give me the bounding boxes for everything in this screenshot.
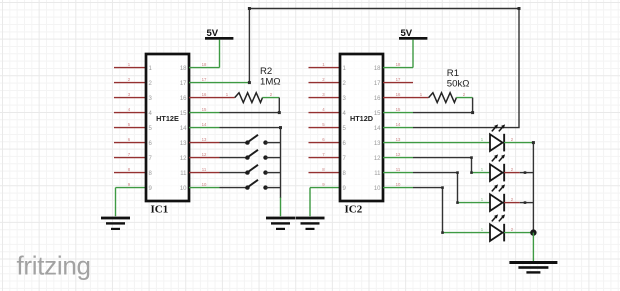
svg-text:15: 15 — [180, 111, 187, 117]
svg-text:14: 14 — [180, 126, 187, 132]
svg-text:18: 18 — [374, 66, 381, 72]
svg-text:11: 11 — [202, 167, 207, 172]
svg-text:13: 13 — [396, 137, 401, 142]
LED D2 cathode wire: red leg + black wire to bus — [504, 167, 533, 174]
svg-text:11: 11 — [180, 171, 187, 177]
wire IC2 pin9 to ground + ground symbol GND3 — [296, 188, 325, 230]
svg-text:16: 16 — [180, 96, 187, 102]
IC1 pin 9 leg (VSS, connected, green) — [116, 182, 147, 187]
svg-text:fritzing: fritzing — [17, 251, 91, 281]
IC1 pin 10 leg + wire to switch S4 — [189, 182, 248, 187]
ground symbol GND4 bars — [509, 261, 557, 274]
IC2 pin numbers (1-9 left, 18-10 right) — [343, 66, 382, 192]
IC2 pin 15 leg (OSC2) green + black wire to R1 output — [383, 107, 473, 112]
svg-text:13: 13 — [374, 141, 381, 147]
svg-text:18: 18 — [396, 62, 401, 67]
IC1 pin 14 leg (TE) green + black wire to ground bus — [189, 122, 281, 127]
svg-text:IC1: IC1 — [151, 203, 169, 215]
LED D4 cathode wire (green) to bus junction — [504, 227, 533, 232]
LED D3 — [490, 184, 505, 211]
svg-text:R1: R1 — [447, 68, 459, 79]
svg-text:12: 12 — [180, 156, 187, 162]
IC1 reference designator label — [151, 203, 169, 215]
IC2 pin 11 (D10) leg + stepped wire down to LED3 anode — [383, 167, 490, 204]
svg-text:17: 17 — [374, 81, 381, 87]
svg-text:10: 10 — [374, 186, 381, 192]
power symbol 5V (right) + wire to IC2 pin18 — [399, 28, 427, 68]
IC1 pin 15 leg (OSC2) green + black wire to R2 output — [189, 107, 279, 112]
LED D1 cathode wire to LED bus (green) — [504, 137, 533, 142]
svg-text:17: 17 — [180, 81, 187, 87]
bendpoint junction at IC1 pin17 — [248, 81, 251, 84]
bendpoint at top of switch ground bus — [279, 126, 282, 129]
bendpoint top of LED bus — [532, 141, 535, 144]
IC1 part name label HT12E — [156, 114, 179, 123]
svg-text:12: 12 — [374, 156, 381, 162]
switch S3 (SPST) on pin 11 — [245, 165, 280, 175]
IC2 pin 9 leg (VSS, green) — [310, 182, 340, 187]
IC2 pin 14 leg (DIN) green, black wire continues to data bus — [383, 122, 413, 127]
IC2 pin 17 leg (VT, unconnected red) — [383, 77, 413, 82]
svg-text:HT12D: HT12D — [350, 114, 373, 123]
svg-text:IC2: IC2 — [345, 203, 363, 215]
svg-text:16: 16 — [374, 96, 381, 102]
IC2 reference designator label — [345, 203, 363, 215]
IC2 pin 12 (D9) leg + stepped wire down to LED2 anode — [383, 152, 490, 174]
IC2 pin 13 (D8) green wire to LED1 anode — [383, 137, 490, 142]
switch S4 (SPST) on pin 10 — [245, 180, 280, 190]
svg-text:14: 14 — [396, 122, 401, 127]
IC1 pin numbers (1-9 left, 18-10 right) — [149, 66, 188, 192]
data bus wire: IC1 pin17 up, across top, down to IC2 pin14 (DIN) — [249, 9, 519, 128]
svg-text:16: 16 — [202, 92, 207, 97]
IC1 pin 16 leg (OSC1, red) + resistor R2 left leg — [189, 92, 235, 97]
resistor R1 zigzag body — [429, 93, 457, 103]
svg-text:13: 13 — [202, 137, 207, 142]
LED D1 — [490, 124, 505, 151]
junction dot at LED bus bottom — [530, 229, 536, 235]
power symbol 5V (left) + wire to IC1 pin18 — [205, 28, 233, 68]
bendpoint R1 output at IC2 pin15 row — [471, 111, 474, 114]
bendpoint R2 output at pin15 row — [278, 111, 281, 114]
svg-text:13: 13 — [180, 141, 187, 147]
svg-text:12: 12 — [202, 152, 207, 157]
switch S1 (SPST) on pin 13 — [245, 135, 280, 145]
switch S2 (SPST) on pin 12 — [245, 150, 280, 160]
switch ground bus vertical wire — [280, 128, 282, 198]
svg-text:11: 11 — [374, 171, 381, 177]
wire IC1 pin9 to ground + ground symbol GND1 — [101, 188, 130, 230]
IC2 pin 10 (D11) leg + stepped wire down to LED4 anode — [383, 182, 490, 234]
wire bus to ground + ground symbol GND2 — [266, 198, 295, 231]
IC1 IC body HT12E — [146, 54, 189, 201]
resistor R2 zigzag body — [235, 93, 263, 103]
IC2 left pin legs 1-8 (unconnected, red) with tiny pin numbers — [309, 62, 341, 172]
svg-text:18: 18 — [202, 62, 207, 67]
svg-text:17: 17 — [396, 77, 401, 82]
svg-text:1MΩ: 1MΩ — [260, 77, 281, 88]
svg-text:17: 17 — [202, 77, 207, 82]
svg-text:50kΩ: 50kΩ — [447, 79, 470, 90]
IC2 pin 18 leg (VDD, green) — [383, 62, 413, 67]
svg-text:10: 10 — [180, 186, 187, 192]
IC2 pin 16 leg (OSC1, red) + resistor R1 left leg — [383, 92, 429, 97]
svg-text:11: 11 — [396, 167, 401, 172]
svg-text:12: 12 — [396, 152, 401, 157]
IC2 part name label HT12D — [350, 114, 373, 123]
bendpoint top-left corner of data bus — [248, 7, 251, 10]
resistor R1 labels R1 / 50k&#937; — [447, 68, 470, 90]
IC1 left pin legs 1-8 (unconnected, red) with tiny pin numbers — [114, 62, 146, 172]
R2 right leg green + wire down to pin15 row — [262, 92, 279, 112]
R1 right leg green + wire down to pin15 row — [456, 92, 472, 112]
wire IC1 pin17 (DOUT) to node, green — [189, 77, 249, 82]
IC1 pin 12 leg + wire to switch S2 — [189, 152, 248, 157]
LED D4 — [490, 214, 505, 241]
svg-text:R2: R2 — [260, 66, 272, 77]
svg-text:15: 15 — [374, 111, 381, 117]
svg-text:16: 16 — [396, 92, 401, 97]
IC1 pin 18 leg (VDD, green) + tiny number — [189, 62, 220, 67]
bendpoint top-right corner of data bus — [518, 7, 521, 10]
LED D3 cathode wire: red leg + black wire to bus — [504, 197, 533, 204]
resistor R2 labels R2 / 1M&#937; — [260, 66, 281, 88]
IC2 IC body HT12D — [340, 54, 383, 201]
svg-text:15: 15 — [202, 107, 207, 112]
svg-text:10: 10 — [202, 182, 207, 187]
wire LED bus to ground + ground symbol GND4 — [532, 233, 534, 261]
svg-text:18: 18 — [180, 66, 187, 72]
IC1 pin 13 leg + wire to switch S1 — [189, 137, 248, 142]
svg-text:14: 14 — [202, 122, 207, 127]
svg-text:14: 14 — [374, 126, 381, 132]
svg-text:HT12E: HT12E — [156, 114, 179, 123]
svg-text:10: 10 — [396, 182, 401, 187]
IC1 pin 11 leg + wire to switch S3 — [189, 167, 248, 172]
LED cathode bus vertical wire — [532, 143, 534, 233]
fritzing watermark — [17, 251, 91, 281]
svg-text:15: 15 — [396, 107, 401, 112]
LED D2 — [490, 154, 505, 181]
